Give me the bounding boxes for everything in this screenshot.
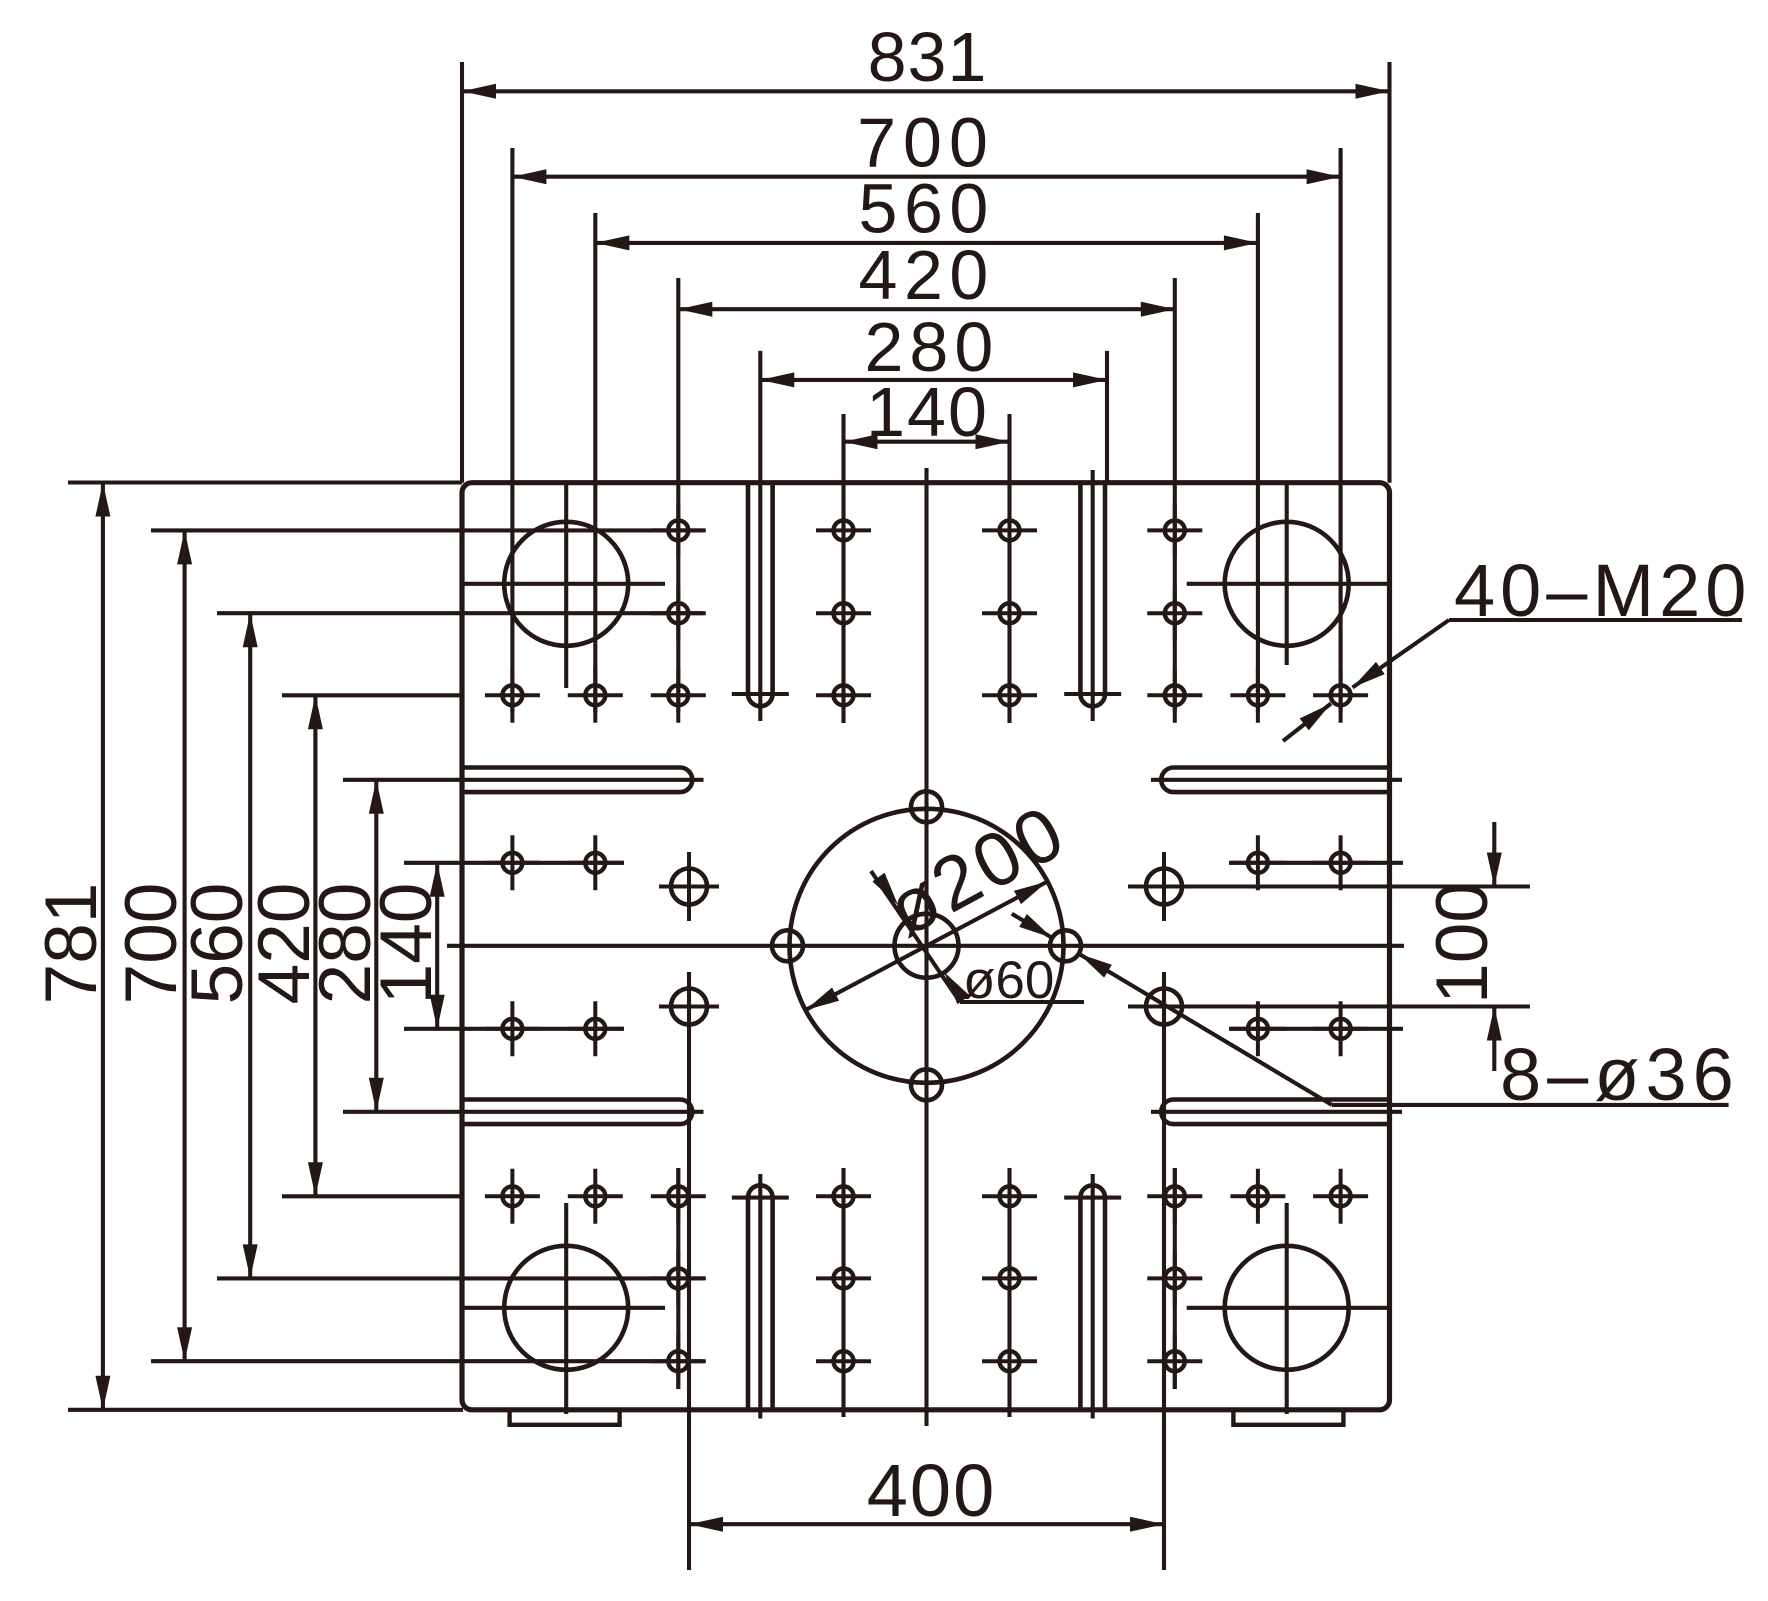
svg-text:ø200: ø200	[874, 788, 1081, 953]
svg-text:140: 140	[866, 373, 989, 451]
svg-text:140: 140	[366, 883, 447, 1005]
svg-text:ø60: ø60	[963, 951, 1054, 1010]
svg-text:8–ø36: 8–ø36	[1500, 1033, 1740, 1116]
svg-text:420: 420	[859, 236, 995, 314]
svg-text:781: 781	[31, 883, 112, 1005]
svg-text:400: 400	[867, 1449, 996, 1532]
svg-text:831: 831	[868, 18, 988, 96]
svg-text:40–M20: 40–M20	[1454, 549, 1751, 632]
svg-text:100: 100	[1422, 882, 1503, 1004]
